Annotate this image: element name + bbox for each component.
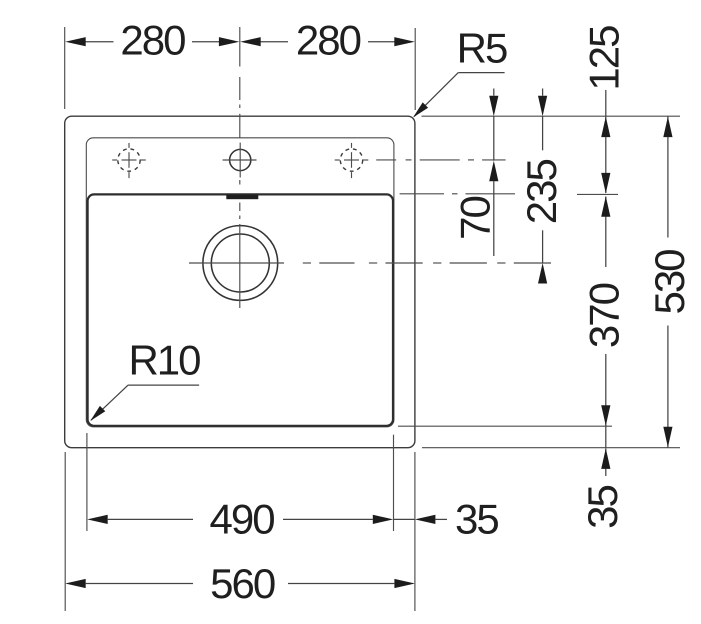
dimension 530 (overall height): [646, 116, 693, 448]
svg-text:70: 70: [451, 197, 498, 240]
svg-text:R5: R5: [457, 24, 507, 71]
tap hole right (optional, dashed): [335, 143, 369, 178]
tap hole centre: [223, 143, 257, 178]
label R10 with leader: [90, 337, 200, 422]
tap hole centre line right extension: [376, 159, 505, 161]
sink outer body outline: [65, 116, 415, 448]
extension line sink top right: [422, 115, 681, 117]
drain outer circle: [203, 226, 278, 301]
bowl top level tick at chain dimension: [577, 193, 618, 195]
dimension chain 125 / 370 / 35: [579, 26, 628, 529]
svg-text:235: 235: [518, 160, 565, 225]
tap hole left (optional, dashed): [112, 143, 146, 178]
dimension 235 (top to drain centre): [518, 89, 565, 284]
bowl outline: [88, 194, 393, 425]
svg-text:280: 280: [120, 17, 185, 64]
svg-text:370: 370: [581, 283, 628, 348]
svg-text:35: 35: [455, 496, 498, 543]
svg-text:560: 560: [210, 560, 275, 607]
svg-text:125: 125: [581, 26, 628, 91]
vertical centre line: [239, 77, 241, 308]
dimension 560 (overall width): [65, 452, 415, 611]
dimension 70 (top to tap centre): [451, 89, 498, 257]
dimension 35 (bowl offset right): [394, 496, 499, 543]
svg-text:530: 530: [646, 250, 693, 315]
drain inner circle: [211, 234, 269, 292]
dimension 280 left: [65, 17, 240, 110]
overflow slot: [226, 195, 258, 200]
bowl top level dashed line: [400, 193, 515, 195]
label R5 with leader: [413, 24, 507, 117]
drain centre line: [189, 262, 551, 264]
svg-text:490: 490: [210, 496, 275, 543]
svg-text:280: 280: [296, 17, 361, 64]
extension line bowl bottom right: [398, 425, 612, 427]
sink rim inner edge: [86, 138, 394, 427]
svg-text:R10: R10: [128, 337, 200, 384]
dimension 490 (bowl width): [87, 433, 394, 543]
dimension 280 right: [240, 17, 415, 111]
svg-text:35: 35: [579, 486, 626, 529]
extension line sink bottom right: [422, 447, 680, 449]
